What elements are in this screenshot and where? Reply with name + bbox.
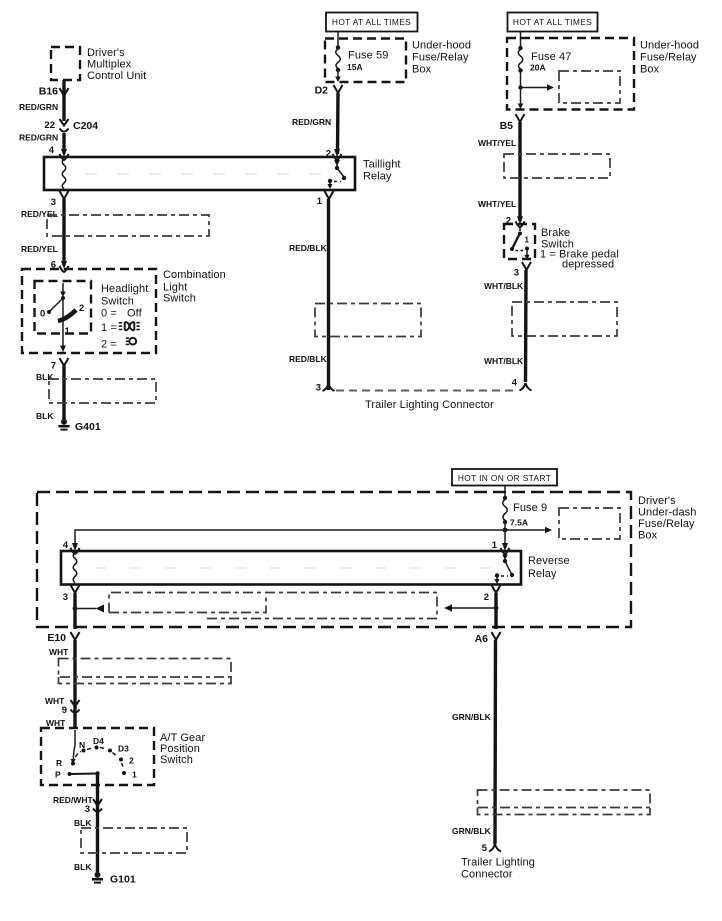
under-hood fuse box 47 xyxy=(507,38,634,110)
svg-text:WHT: WHT xyxy=(46,718,66,728)
connector rect (WHT/BLK) xyxy=(512,302,617,336)
taillight relay coil xyxy=(62,159,66,189)
branch arrow to option connector xyxy=(518,84,554,90)
wire pin7 to G401 xyxy=(62,366,65,419)
pin 3 taillight relay xyxy=(51,191,69,208)
svg-text:D4: D4 xyxy=(93,736,104,746)
svg-text:Fuse 9: Fuse 9 xyxy=(513,502,547,514)
svg-text:WHT/BLK: WHT/BLK xyxy=(484,281,524,291)
pin 4 reverse relay xyxy=(63,540,80,554)
wire WHT/BLK to trailer pin4 xyxy=(524,270,528,382)
horizontal wire fuse9 to pin 4 xyxy=(75,530,505,545)
svg-text:Switch: Switch xyxy=(160,754,193,766)
svg-text:20A: 20A xyxy=(530,63,546,73)
pin B5 xyxy=(500,114,525,132)
svg-text:D2: D2 xyxy=(315,85,329,97)
wire pin3 to headlight switch xyxy=(62,199,65,265)
label: Combination Light Switch xyxy=(163,269,226,305)
label: Trailer Lighting Connector (bottom) xyxy=(461,857,535,881)
svg-text:Under-hood: Under-hood xyxy=(412,40,471,52)
option connector dashed rect xyxy=(559,71,620,103)
svg-text:15A: 15A xyxy=(347,62,363,72)
svg-text:1: 1 xyxy=(317,196,323,207)
wire multiplex to B16 xyxy=(62,80,65,96)
pin 4 taillight relay xyxy=(49,145,69,160)
label: Fuse 47 20A xyxy=(530,51,571,73)
svg-text:G401: G401 xyxy=(75,421,101,433)
svg-text:Relay: Relay xyxy=(528,568,557,580)
svg-text:Switch: Switch xyxy=(163,293,196,305)
wire hot box to fuse 59 xyxy=(337,32,339,47)
svg-text:0: 0 xyxy=(40,309,45,320)
wire pin2 down to A6 xyxy=(494,593,497,629)
svg-text:7: 7 xyxy=(51,361,56,372)
svg-text:1: 1 xyxy=(132,770,137,780)
svg-text:GRN/BLK: GRN/BLK xyxy=(452,712,492,722)
svg-text:Taillight: Taillight xyxy=(363,159,401,171)
pin 3 reverse relay xyxy=(63,585,80,603)
svg-text:Box: Box xyxy=(412,64,432,76)
trailer pin 4 xyxy=(512,378,532,391)
trailer pin 3 xyxy=(316,383,335,394)
svg-text:RED/BLK: RED/BLK xyxy=(289,354,328,364)
connector 3 xyxy=(85,799,102,815)
taillight relay box xyxy=(44,157,355,190)
A/T gear position switch box xyxy=(41,728,154,785)
option connector dashed rect (long) xyxy=(109,593,437,619)
svg-text:Fuse 47: Fuse 47 xyxy=(531,51,571,63)
wire pin3 down to E10 xyxy=(73,593,76,629)
svg-text:RED/BLK: RED/BLK xyxy=(289,243,328,253)
pin 7 xyxy=(51,358,69,372)
svg-text:4: 4 xyxy=(49,145,55,156)
taillight relay switch xyxy=(327,159,346,189)
svg-text:Driver's: Driver's xyxy=(87,47,125,59)
svg-text:HOT AT ALL TIMES: HOT AT ALL TIMES xyxy=(332,17,411,27)
junction fuse9 xyxy=(503,528,508,533)
reverse relay switch xyxy=(494,553,514,584)
svg-text:Switch: Switch xyxy=(101,296,134,308)
svg-text:Trailer Lighting Connector: Trailer Lighting Connector xyxy=(365,399,494,411)
svg-text:BLK: BLK xyxy=(36,411,54,421)
faint scan dashes inside relay xyxy=(95,567,500,569)
svg-text:Box: Box xyxy=(638,530,658,542)
connector rect (BLK) xyxy=(81,828,187,853)
trailer pin 5 xyxy=(482,843,501,854)
pin 2 brake switch xyxy=(506,216,525,228)
connector rect (WHT/YEL) xyxy=(504,154,610,178)
label: Fuse 9 7.5A xyxy=(510,502,547,528)
svg-text:Relay: Relay xyxy=(363,171,392,183)
reverse relay coil xyxy=(73,553,77,584)
svg-text:22: 22 xyxy=(44,120,55,131)
junction + arrow left xyxy=(444,604,498,611)
svg-text:3: 3 xyxy=(85,804,90,815)
svg-text:RED/YEL: RED/YEL xyxy=(21,244,58,254)
label: Under-hood Fuse/Relay Box (right) xyxy=(640,40,699,76)
connector C204 pin 22 xyxy=(44,119,98,132)
svg-text:RED/GRN: RED/GRN xyxy=(19,133,58,143)
hot at all times box (left) xyxy=(326,13,418,32)
wire A6 down to trailer pin 5 xyxy=(493,640,497,844)
svg-text:Reverse: Reverse xyxy=(528,555,570,567)
combination light switch outer box xyxy=(22,269,156,353)
connector rect (BLK) xyxy=(49,379,156,403)
svg-text:9: 9 xyxy=(62,705,67,716)
branch arrow right xyxy=(505,527,552,533)
svg-text:5: 5 xyxy=(482,843,488,854)
pin 3 brake switch xyxy=(514,262,531,279)
svg-text:3: 3 xyxy=(63,592,68,603)
svg-text:R: R xyxy=(56,758,62,768)
label: A/T Gear Position Switch xyxy=(160,732,205,766)
pin E10 xyxy=(47,632,79,644)
pin D2 xyxy=(315,85,343,97)
svg-text:Off: Off xyxy=(127,308,143,320)
brake switch box xyxy=(504,224,535,259)
A/T gear switch contacts xyxy=(55,730,137,780)
connector rect (RED/YEL) xyxy=(47,215,209,236)
fuse 59 xyxy=(335,45,341,82)
under-dash fuse/relay box (dashed) xyxy=(37,492,631,627)
headlight switch exit wire xyxy=(60,298,66,352)
svg-text:1 =: 1 = xyxy=(101,322,117,334)
wire pivot down to G101 xyxy=(96,774,99,873)
ground G101 xyxy=(92,872,136,886)
trailer lighting connector dashed line xyxy=(336,390,518,392)
svg-text:BLK: BLK xyxy=(74,862,92,872)
svg-text:WHT/YEL: WHT/YEL xyxy=(478,138,516,148)
label: Driver's Under-dash Fuse/Relay Box xyxy=(638,495,696,542)
svg-text:Brake: Brake xyxy=(541,227,570,239)
wire hot box to fuse 9 xyxy=(504,486,506,498)
svg-text:Fuse/Relay: Fuse/Relay xyxy=(640,52,697,64)
svg-text:4: 4 xyxy=(512,378,518,389)
headlight switch contacts xyxy=(40,283,84,337)
faint scan dashes inside relay xyxy=(85,173,330,175)
pin 1 reverse relay xyxy=(492,540,510,554)
label: Driver's Multiplex Control Unit xyxy=(87,47,146,82)
svg-text:WHT: WHT xyxy=(49,647,69,657)
parking lamp icon xyxy=(119,322,140,330)
svg-text:Under-hood: Under-hood xyxy=(640,40,699,52)
pin 2 taillight relay xyxy=(326,149,342,161)
svg-text:WHT/YEL: WHT/YEL xyxy=(478,199,516,209)
pin 2 reverse relay xyxy=(484,585,501,603)
ground G401 xyxy=(59,419,101,433)
hot at all times box (right) xyxy=(508,13,598,32)
connector rect (RED/BLK) xyxy=(315,304,421,337)
svg-text:1: 1 xyxy=(492,540,498,551)
svg-text:Under-dash: Under-dash xyxy=(638,507,696,519)
svg-text:N: N xyxy=(79,740,85,750)
label: Under-hood Fuse/Relay Box (left) xyxy=(412,40,471,76)
option connector dashed rect xyxy=(559,508,620,539)
junction + arrow right xyxy=(73,605,104,613)
svg-text:Combination: Combination xyxy=(163,269,226,281)
svg-text:G101: G101 xyxy=(110,874,136,886)
reverse relay box xyxy=(61,551,521,585)
wire fuse9 down to pin 1 xyxy=(504,530,506,545)
svg-text:2: 2 xyxy=(79,303,84,314)
svg-text:3: 3 xyxy=(316,383,321,394)
svg-text:BLK: BLK xyxy=(74,818,92,828)
hot in on or start box xyxy=(452,469,557,486)
svg-text:4: 4 xyxy=(63,540,69,551)
label: Fuse 59 15A xyxy=(347,50,388,73)
svg-text:Fuse/Relay: Fuse/Relay xyxy=(412,52,469,64)
svg-text:depressed: depressed xyxy=(562,259,614,271)
driver's multiplex control unit box xyxy=(51,47,80,80)
svg-text:2: 2 xyxy=(129,756,134,766)
svg-text:RED/GRN: RED/GRN xyxy=(292,117,331,127)
svg-text:B16: B16 xyxy=(39,86,58,98)
svg-text:B5: B5 xyxy=(500,120,514,132)
svg-text:0 =: 0 = xyxy=(101,308,117,320)
svg-text:Connector: Connector xyxy=(461,869,513,881)
pin B16 xyxy=(39,86,69,98)
pin 1 taillight relay xyxy=(317,191,334,207)
svg-text:2 =: 2 = xyxy=(101,339,117,351)
svg-text:RED/YEL: RED/YEL xyxy=(21,209,58,219)
wire D2 to relay pin 2 xyxy=(336,93,340,154)
svg-text:1: 1 xyxy=(65,326,71,337)
wire hot box to fuse 47 xyxy=(520,32,522,47)
svg-text:P: P xyxy=(55,770,61,780)
svg-text:3: 3 xyxy=(514,268,519,279)
svg-text:A6: A6 xyxy=(475,633,489,645)
svg-text:1: 1 xyxy=(525,236,530,245)
svg-text:HOT IN ON OR START: HOT IN ON OR START xyxy=(458,473,551,483)
connector rect (GRN/BLK) xyxy=(478,790,651,808)
svg-text:Control Unit: Control Unit xyxy=(87,70,146,82)
label: Brake Switch legend xyxy=(540,227,619,271)
fuse 47 xyxy=(518,46,524,109)
svg-text:Box: Box xyxy=(640,64,660,76)
svg-text:RED/GRN: RED/GRN xyxy=(19,102,58,112)
under-hood fuse box 59 xyxy=(325,39,406,83)
svg-text:GRN/BLK: GRN/BLK xyxy=(452,826,492,836)
svg-text:Trailer Lighting: Trailer Lighting xyxy=(461,857,535,869)
svg-text:WHT/BLK: WHT/BLK xyxy=(484,356,524,366)
svg-text:3: 3 xyxy=(51,197,56,208)
connector rect (WHT) xyxy=(59,659,232,678)
svg-text:D3: D3 xyxy=(118,744,129,754)
fuse 9 xyxy=(503,496,508,530)
wire B5 to brake switch xyxy=(518,122,521,221)
svg-text:BLK: BLK xyxy=(36,372,54,382)
label: Headlight Switch legend xyxy=(101,283,148,351)
connector 9 xyxy=(62,700,80,716)
pin A6 xyxy=(475,632,501,645)
wire C204 to pin 4 xyxy=(62,133,65,153)
svg-text:Fuse/Relay: Fuse/Relay xyxy=(638,518,695,530)
svg-text:7.5A: 7.5A xyxy=(510,518,528,528)
svg-text:Multiplex: Multiplex xyxy=(87,59,132,71)
pin 6 combination switch xyxy=(51,260,69,273)
svg-text:Fuse 59: Fuse 59 xyxy=(348,50,388,62)
svg-text:Headlight: Headlight xyxy=(101,283,148,295)
label: Reverse Relay xyxy=(528,555,570,580)
headlamp icon xyxy=(126,338,136,345)
headlight switch inner box xyxy=(35,281,92,334)
svg-text:HOT AT ALL TIMES: HOT AT ALL TIMES xyxy=(513,17,592,27)
svg-text:C204: C204 xyxy=(73,120,98,132)
svg-text:Driver's: Driver's xyxy=(638,495,676,507)
svg-text:2: 2 xyxy=(326,149,331,160)
wire RED/BLK pin1 to trailer pin3 xyxy=(327,199,330,390)
label: Taillight Relay xyxy=(363,159,401,183)
wire B16 to C204 xyxy=(62,96,65,121)
svg-text:2: 2 xyxy=(484,592,489,603)
svg-text:E10: E10 xyxy=(47,632,66,644)
brake switch contacts xyxy=(510,226,530,260)
wire E10 down xyxy=(73,640,76,729)
